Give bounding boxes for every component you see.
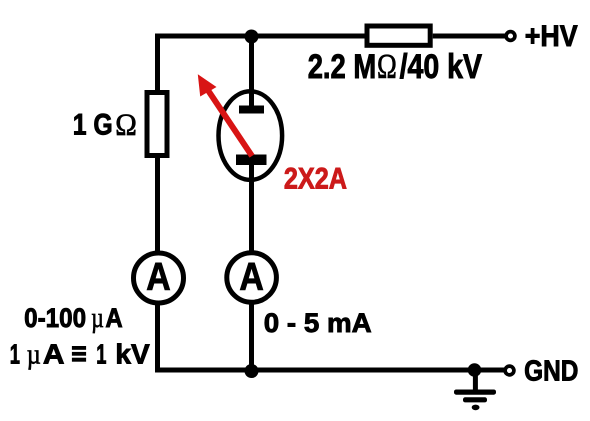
svg-text:A: A (239, 256, 263, 299)
svg-text:µ: µ (27, 339, 41, 371)
svg-text:Ω: Ω (377, 47, 397, 86)
svg-text:+HV: +HV (525, 20, 578, 53)
svg-text:A: A (105, 303, 122, 333)
svg-text:1 G: 1 G (73, 109, 113, 142)
svg-text:A: A (146, 256, 170, 299)
svg-text:2X2A: 2X2A (284, 162, 347, 195)
svg-text:0 - 5 mA: 0 - 5 mA (264, 308, 372, 338)
svg-text:/40 kV: /40 kV (400, 48, 483, 86)
svg-text:GND: GND (524, 356, 578, 388)
svg-text:A: A (43, 339, 65, 370)
svg-text:1: 1 (96, 339, 106, 370)
svg-text:kV: kV (115, 339, 150, 370)
svg-text:2.2 M: 2.2 M (308, 48, 377, 86)
svg-text:µ: µ (91, 303, 104, 334)
svg-text:1: 1 (10, 339, 20, 370)
svg-text:0-100: 0-100 (24, 303, 86, 333)
svg-text:Ω: Ω (115, 107, 137, 142)
